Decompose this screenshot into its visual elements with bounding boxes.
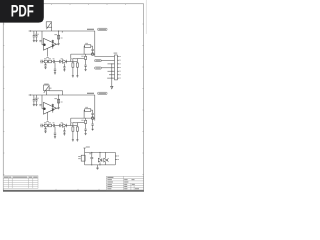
channel 1 circuit (29, 28, 107, 77)
frame zone ticks top (33, 4, 126, 5)
frame zone ticks bottom (56, 189, 99, 190)
frame zone ticks left (3, 24, 4, 175)
connector J1 (114, 53, 118, 80)
ground (97, 165, 99, 168)
net flag to pin2 (95, 60, 115, 62)
wire: pin7 (107, 77, 114, 79)
wire: pin1 (95, 56, 115, 58)
wire: top rail (85, 151, 116, 153)
wire: left leg (84, 152, 86, 165)
sheet border frame (3, 0, 146, 191)
connector J3 (81, 155, 85, 161)
PDF badge (0, 0, 44, 23)
power supply circuit (78, 147, 119, 170)
wire: ground drop (111, 64, 113, 86)
diode D5 (99, 152, 101, 157)
ground (92, 128, 94, 130)
net flag to pin4 (95, 67, 115, 69)
pin numbers (119, 56, 120, 79)
wire: pin5 (108, 70, 115, 72)
capacitor C20 channel2 extra (91, 119, 93, 130)
revision table bottom-left (3, 176, 38, 189)
right pins (115, 155, 117, 157)
ground arrow (111, 86, 113, 89)
frame zone ticks right (142, 24, 143, 175)
capacitor C11 polarized (105, 152, 107, 158)
wire: right leg (114, 152, 116, 165)
capacitor C10 (91, 152, 93, 157)
wire: pin6 (109, 74, 115, 76)
node: junction dots (91, 152, 92, 153)
node: junction dots (111, 63, 112, 64)
channel 2 circuit (29, 92, 107, 141)
wire: bottom rail (85, 164, 116, 166)
svg-text:PDF: PDF (11, 3, 34, 21)
wire: pin3 (108, 63, 115, 65)
VCC symbol (84, 148, 86, 152)
title block bottom-right (106, 176, 143, 190)
connector pin stubs right (117, 57, 119, 79)
potentiometer VR1 (46, 22, 62, 33)
potentiometer VR2 (44, 84, 63, 95)
